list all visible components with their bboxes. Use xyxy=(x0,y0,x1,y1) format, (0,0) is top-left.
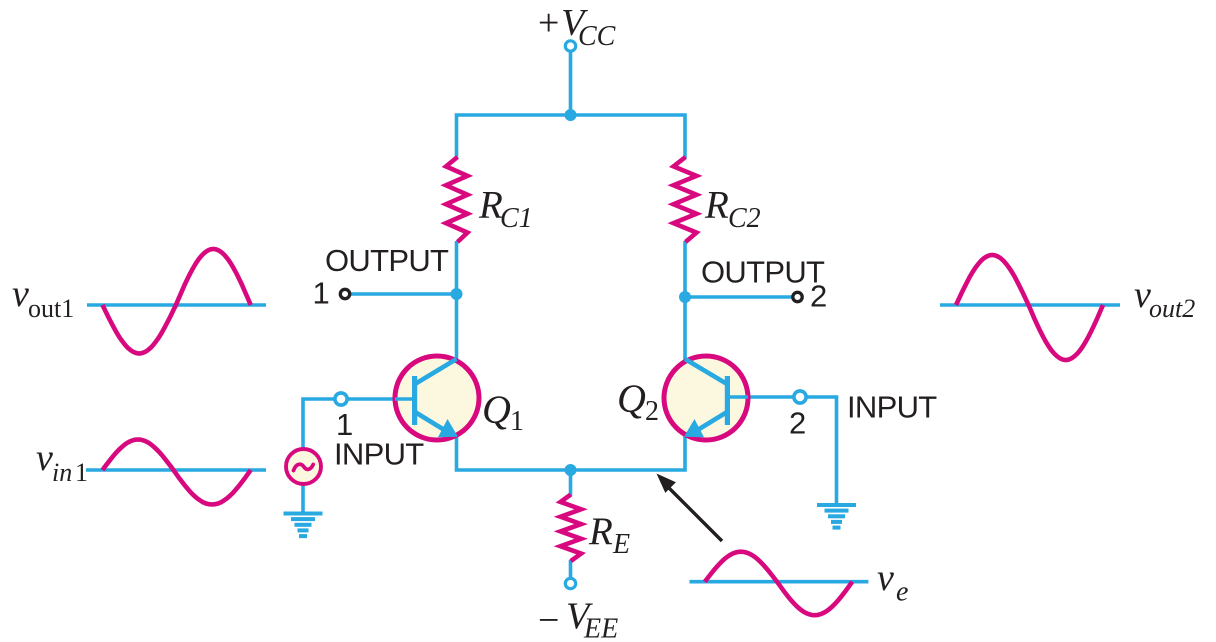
svg-text:1: 1 xyxy=(313,276,330,311)
svg-text:OUTPUT: OUTPUT xyxy=(701,255,825,290)
svg-text:C2: C2 xyxy=(728,203,761,234)
wire: input 1 source riser and base lead xyxy=(303,399,413,450)
node vout1 sine wave xyxy=(103,249,251,354)
wire: RC1 bottom to Q1 collector xyxy=(455,241,459,360)
wire: +VCC stem xyxy=(569,50,573,116)
wire: input 2 base lead and ground riser xyxy=(730,397,837,504)
node vin1 sine wave xyxy=(103,440,251,505)
terminal: input 2 open circle xyxy=(794,391,806,403)
arrow pointing to emitter rail node (ve) xyxy=(657,474,723,542)
label RE value xyxy=(588,510,630,560)
terminal: output 2 open circle xyxy=(793,292,802,301)
svg-text:2: 2 xyxy=(810,279,827,314)
wire: output 2 lead xyxy=(685,295,797,299)
label -VEE xyxy=(538,596,618,642)
svg-text:1: 1 xyxy=(510,406,524,437)
svg-text:E: E xyxy=(612,529,630,560)
svg-text:R: R xyxy=(704,184,729,227)
svg-text:e: e xyxy=(896,577,908,608)
node vin1 waveform baseline xyxy=(86,468,266,472)
terminal: +VCC open circle xyxy=(565,41,575,51)
wire: AC source to ground xyxy=(301,484,305,513)
svg-text:CC: CC xyxy=(578,21,616,52)
wire: output 1 lead xyxy=(345,292,457,296)
wire: Q1 emitter, bottom rail, Q2 emitter xyxy=(457,432,686,470)
svg-text:R: R xyxy=(588,510,613,553)
ground symbol (right, input 2) xyxy=(817,503,856,530)
svg-text:OUTPUT: OUTPUT xyxy=(325,243,449,278)
svg-text:out2: out2 xyxy=(1149,294,1195,323)
junction dot: output 2 node on collector 2 xyxy=(679,291,691,303)
wire: RE bottom stem to -VEE terminal xyxy=(569,560,573,578)
svg-text:out1: out1 xyxy=(28,294,74,323)
svg-text:INPUT: INPUT xyxy=(334,437,424,472)
wire: RE top stem xyxy=(569,470,573,496)
node vout2 waveform baseline xyxy=(940,303,1120,307)
svg-text:Q: Q xyxy=(617,376,646,421)
transistor Q1 xyxy=(395,356,479,440)
svg-text:2: 2 xyxy=(645,396,659,427)
svg-text:1: 1 xyxy=(75,458,88,487)
wire: top rail from RC1 to RC2 xyxy=(457,115,686,158)
svg-text:v: v xyxy=(877,557,894,599)
svg-text:in: in xyxy=(52,458,72,487)
svg-text:2: 2 xyxy=(789,406,806,441)
label +VCC xyxy=(536,2,616,52)
svg-text:C1: C1 xyxy=(500,203,533,234)
terminal: input 1 open circle xyxy=(335,393,347,405)
label Q1 xyxy=(482,387,524,437)
svg-text:−: − xyxy=(538,600,559,642)
junction dot: output 1 node on collector 1 xyxy=(451,288,463,300)
label Q2 xyxy=(617,376,659,427)
AC source (signal generator) xyxy=(286,449,321,484)
ground symbol (left, under AC source) xyxy=(284,512,323,539)
resistor RC2 xyxy=(674,157,697,242)
junction dot: VCC rail node xyxy=(565,109,577,121)
label vout1 xyxy=(12,273,74,323)
svg-text:v: v xyxy=(36,437,53,479)
terminal: -VEE open circle xyxy=(565,578,575,588)
node vout2 sine wave xyxy=(956,255,1103,360)
transistor Q2 xyxy=(664,356,748,440)
label RC2 value xyxy=(704,184,761,235)
terminal: output 1 open circle xyxy=(340,289,349,298)
svg-text:v: v xyxy=(12,273,29,315)
label vin1 xyxy=(36,437,88,487)
resistor RE xyxy=(561,495,582,562)
label RC1 value xyxy=(478,184,533,235)
label vout2 xyxy=(1134,274,1195,323)
wire: RC2 bottom to Q2 collector xyxy=(683,241,687,360)
junction dot: emitter rail node at RE xyxy=(565,464,577,476)
svg-text:Q: Q xyxy=(482,387,511,432)
svg-text:INPUT: INPUT xyxy=(847,390,937,425)
node ve sine wave xyxy=(705,552,853,616)
svg-text:EE: EE xyxy=(583,614,618,642)
node vout1 waveform baseline xyxy=(87,303,266,307)
label ve xyxy=(877,557,908,608)
node ve waveform baseline xyxy=(690,580,869,584)
resistor RC1 xyxy=(446,157,468,242)
